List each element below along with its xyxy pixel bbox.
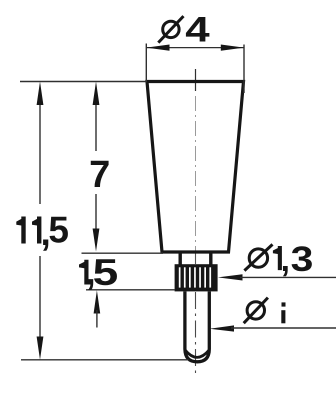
svg-text:5: 5 xyxy=(93,252,119,293)
svg-text:5: 5 xyxy=(48,210,69,251)
extension line top (y 81.5) xyxy=(20,81,147,83)
extension line cap bottom (y 253) xyxy=(82,252,164,254)
svg-text:7: 7 xyxy=(89,154,110,196)
dimension 11,5 xyxy=(16,82,69,360)
dimension Ø4 xyxy=(146,10,244,93)
svg-text:3: 3 xyxy=(291,240,314,280)
extension line bottom (y 359.8) xyxy=(21,359,189,361)
dimension 1,5 xyxy=(79,252,118,328)
center line xyxy=(195,69,197,375)
pin with domed tip xyxy=(185,292,209,362)
label Ø i with leader xyxy=(210,298,336,332)
knurled section xyxy=(175,264,218,291)
knob cap outline xyxy=(147,82,244,253)
neck between cap and knurl xyxy=(180,254,211,266)
label Ø1,3 with leader xyxy=(218,240,336,281)
dimension 7 xyxy=(89,82,110,252)
svg-text:4: 4 xyxy=(185,10,210,49)
extension line knurl bottom (y 289.5) xyxy=(86,289,175,291)
svg-text:,: , xyxy=(281,242,290,279)
